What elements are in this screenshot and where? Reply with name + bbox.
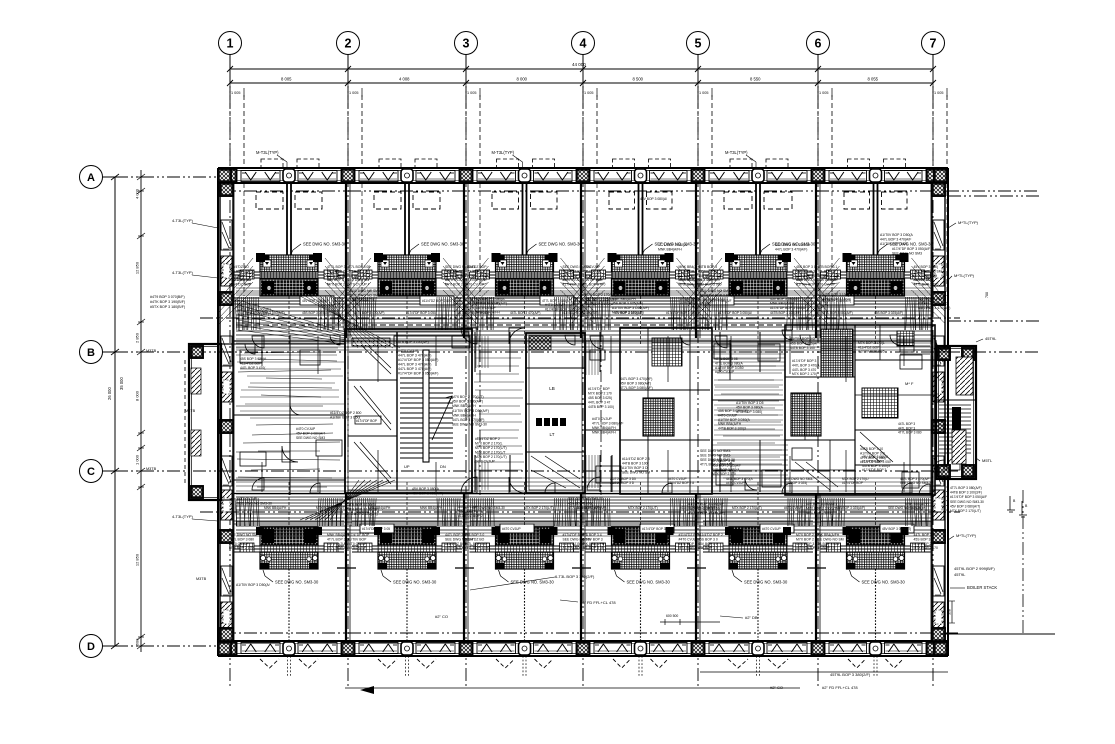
- svg-text:M7X BOP 2 170(L/T): M7X BOP 2 170(L/T): [628, 506, 658, 510]
- svg-text:#17/4"DF BOP 3 050(: #17/4"DF BOP 3 050(: [406, 311, 438, 315]
- svg-text:45V BOP 3 080(A: 45V BOP 3 080(A: [412, 487, 440, 491]
- svg-text:A1/T0V BOP 3 D5: A1/T0V BOP 3 D5: [880, 242, 908, 246]
- svg-text:447L BOP 3 470(A/F): 447L BOP 3 470(A/F): [398, 354, 431, 358]
- svg-text:MNK BB4(A/FH: MNK BB4(A/FH: [452, 404, 476, 408]
- svg-text:44TB BOP 3 100(: 44TB BOP 3 100(: [622, 462, 650, 466]
- svg-text:4T7L BOP 3 080: 4T7L BOP 3 080: [898, 431, 922, 435]
- svg-text:#4T0 CVJUP: #4T0 CVJUP: [347, 546, 368, 550]
- svg-text:4: 4: [580, 37, 587, 51]
- svg-text:SEE DWG NO SM3-30: SEE DWG NO SM3-30: [775, 243, 810, 247]
- svg-text:A1/T0V BOP 3 D50(A/F): A1/T0V BOP 3 D50(A/F): [452, 409, 489, 413]
- svg-text:2 850: 2 850: [135, 332, 140, 343]
- svg-text:44TB BOP 3 100(: 44TB BOP 3 100(: [588, 405, 615, 409]
- svg-text:447L BOP 3 470(A/F): 447L BOP 3 470(A/F): [452, 418, 484, 422]
- svg-text:MNK BB4(A/FH: MNK BB4(A/FH: [592, 431, 616, 435]
- svg-text:45S BOP 3 025(A/F): 45S BOP 3 025(A/F): [874, 311, 903, 315]
- svg-text:SEE DWG NO SM: SEE DWG NO SM: [229, 533, 257, 537]
- svg-text:UP: UP: [404, 464, 410, 469]
- svg-text:45S BOP 3 0: 45S BOP 3 0: [816, 546, 836, 550]
- svg-text:M*TL(TYP): M*TL(TYP): [956, 533, 977, 538]
- svg-text:#17/4"DF BOP: #17/4"DF BOP: [347, 533, 370, 537]
- svg-text:447L BOP 3 4: 447L BOP 3 4: [581, 533, 602, 537]
- svg-text:#4T0 CVJUP: #4T0 CVJUP: [327, 542, 348, 546]
- svg-text:MNK BB4(A/FH: MNK BB4(A/FH: [612, 297, 636, 301]
- svg-text:447L BOP 3 470: 447L BOP 3 470: [914, 533, 939, 537]
- svg-text:8 005: 8 005: [281, 77, 292, 82]
- svg-text:6: 6: [815, 37, 822, 51]
- svg-text:M7X BOP 2 170: M7X BOP 2 170: [588, 392, 612, 396]
- svg-text:MNK BB4(A/FH: MNK BB4(A/FH: [264, 506, 287, 510]
- svg-text:M7X BOP 2 170(L/T): M7X BOP 2 170(L/T): [316, 506, 346, 510]
- svg-text:#17/4"DF BOP 3 050(A/F): #17/4"DF BOP 3 050(A/F): [398, 372, 438, 376]
- svg-text:#4T0 CVJUP: #4T0 CVJUP: [229, 542, 250, 546]
- svg-text:4T7L BOP 3 08: 4T7L BOP 3 08: [581, 546, 604, 550]
- svg-text:SEE DWG NO SM3-: SEE DWG NO SM3-: [700, 449, 731, 453]
- svg-text:#11/4"DZ BOP 2 8: #11/4"DZ BOP 2 8: [668, 481, 694, 485]
- svg-text:#17/4"DF BOP 3: #17/4"DF BOP 3: [862, 468, 887, 472]
- svg-text:45V BOP 3 080(A/T): 45V BOP 3 080(A/T): [476, 302, 507, 306]
- svg-text:SEE DWG NO SM: SEE DWG NO SM: [622, 471, 650, 475]
- svg-text:1 005: 1 005: [819, 91, 829, 95]
- svg-text:#11/4"DZ BOP 2: #11/4"DZ BOP 2: [698, 533, 723, 537]
- svg-text:M7X BOP 2 1: M7X BOP 2 1: [914, 542, 935, 546]
- svg-text:#17/4"DF BOP: #17/4"DF BOP: [842, 481, 863, 485]
- svg-text:#4T0 CVJUP: #4T0 CVJUP: [762, 527, 781, 531]
- svg-text:1: 1: [227, 37, 234, 51]
- svg-text:447L BOP 3 470(A: 447L BOP 3 470(A: [792, 363, 820, 367]
- svg-text:44TB BOP 3 100: 44TB BOP 3 100: [790, 346, 815, 350]
- svg-text:45V BOP 3 080(A: 45V BOP 3 080(A: [862, 455, 889, 459]
- svg-text:C: C: [87, 466, 95, 478]
- svg-text:MNK BB4(A/FH: MNK BB4(A/FH: [476, 311, 500, 315]
- svg-text:4T7L BOP 3 080(A/F): 4T7L BOP 3 080(A/F): [950, 486, 982, 490]
- svg-text:M*TL(TYP): M*TL(TYP): [958, 220, 979, 225]
- svg-text:45V BOP 3 0: 45V BOP 3 0: [698, 542, 718, 546]
- svg-text:45T9L BOP 3 380(2/F): 45T9L BOP 3 380(2/F): [830, 672, 871, 677]
- svg-text:447L BOP 3 470(A/F): 447L BOP 3 470(A/F): [620, 377, 652, 381]
- svg-text:447L BOP 3 470: 447L BOP 3 470: [792, 368, 816, 372]
- svg-text:#4T0 CVJUP: #4T0 CVJUP: [465, 283, 486, 287]
- svg-text:#11/4"DZ BOP 2: #11/4"DZ BOP 2: [475, 437, 500, 441]
- svg-text:SEE DWG NO SM3-30: SEE DWG NO SM3-30: [888, 506, 921, 510]
- svg-text:B: B: [87, 347, 95, 359]
- svg-text:M3TB: M3TB: [146, 349, 157, 353]
- svg-text:SEE DWG NO: SEE DWG NO: [347, 278, 369, 282]
- svg-text:#4T0 CVJUP: #4T0 CVJUP: [502, 527, 521, 531]
- svg-text:1 005: 1 005: [467, 91, 477, 95]
- svg-text:447L BOP 3 470(A/F): 447L BOP 3 470(A/F): [398, 363, 431, 367]
- svg-text:A1/T0V BOP 3 D50(A/F): A1/T0V BOP 3 D50(A/F): [250, 311, 285, 315]
- svg-text:M3TB: M3TB: [196, 577, 207, 581]
- svg-text:MNK BB4(A/FH: MNK BB4(A/FH: [368, 506, 391, 510]
- svg-text:#17/4"DF BOP 3 050(A/F: #17/4"DF BOP 3 050(A/F: [950, 495, 987, 499]
- svg-text:M7X BOP 2 1: M7X BOP 2 1: [465, 278, 486, 282]
- svg-text:600 500: 600 500: [666, 614, 678, 618]
- svg-text:44TB BOP 3: 44TB BOP 3: [698, 265, 717, 269]
- svg-text:447L BOP 3: 447L BOP 3: [679, 542, 697, 546]
- svg-text:#11/4"DZ BO: #11/4"DZ BO: [465, 537, 485, 541]
- svg-text:A1/T0V BOP 3 D50(A/: A1/T0V BOP 3 D50(A/: [236, 583, 270, 587]
- svg-text:MNK BB4(A/FH: MNK BB4(A/FH: [592, 426, 616, 430]
- svg-text:45T9L BOP 2 999(B/F): 45T9L BOP 2 999(B/F): [954, 566, 995, 571]
- svg-text:#4T0 CVJUP: #4T0 CVJUP: [475, 460, 496, 464]
- svg-text:4T7L BOP 3 080: 4T7L BOP 3 080: [229, 537, 254, 541]
- svg-text:1 005: 1 005: [584, 91, 594, 95]
- svg-text:4T7L BOP 3 08: 4T7L BOP 3 08: [347, 265, 370, 269]
- svg-text:1 000: 1 000: [135, 454, 140, 465]
- svg-text:35 000: 35 000: [119, 377, 124, 390]
- svg-text:M5TL: M5TL: [982, 458, 993, 463]
- svg-text:8 500: 8 500: [633, 77, 644, 82]
- svg-text:3: 3: [463, 37, 470, 51]
- svg-text:M7X BOP 2 1: M7X BOP 2 1: [327, 283, 348, 287]
- svg-text:44 000: 44 000: [572, 62, 586, 67]
- svg-text:4T7L BOP 3: 4T7L BOP 3: [816, 269, 835, 273]
- svg-text:SEE DWG NO. SM3-30: SEE DWG NO. SM3-30: [539, 242, 583, 247]
- svg-text:2: 2: [345, 37, 352, 51]
- svg-text:#4T0 CVJUP: #4T0 CVJUP: [237, 497, 258, 501]
- svg-text:7: 7: [930, 37, 937, 51]
- svg-text:#17/4"DF BOP 3 0: #17/4"DF BOP 3 0: [642, 527, 668, 531]
- svg-text:M7X BOP 2 170(L/T): M7X BOP 2 170(L/T): [524, 506, 554, 510]
- svg-text:SEE DWG NO SM3-30: SEE DWG NO SM3-30: [950, 500, 984, 504]
- svg-text:SEE DWG NO SM: SEE DWG NO SM: [816, 537, 844, 541]
- svg-text:447L BOP 3 47: 447L BOP 3 47: [465, 542, 488, 546]
- svg-text:DN: DN: [440, 464, 446, 469]
- svg-text:#4T0 CVJUP: #4T0 CVJUP: [715, 370, 735, 374]
- svg-text:45V BOP 3 080(: 45V BOP 3 080(: [465, 274, 491, 278]
- svg-text:45S BOP 3 025: 45S BOP 3 025: [816, 542, 840, 546]
- svg-text:4T7L BOP 3: 4T7L BOP 3: [327, 546, 346, 550]
- svg-text:#4TK BOP 3 190(B/F): #4TK BOP 3 190(B/F): [150, 300, 185, 304]
- svg-text:447L BOP 3 470(A/F): 447L BOP 3 470(A/F): [775, 248, 807, 252]
- svg-text:45S BOP 3 025(A/F): 45S BOP 3 025(A/F): [302, 311, 331, 315]
- svg-text:1 005: 1 005: [699, 91, 709, 95]
- svg-text:SEE DWG NO. SM3-30: SEE DWG NO. SM3-30: [275, 580, 319, 585]
- svg-text:5: 5: [695, 37, 702, 51]
- svg-text:#2" CO: #2" CO: [770, 685, 783, 690]
- svg-text:MNK BB4(A/FH: MNK BB4(A/FH: [816, 533, 840, 537]
- svg-text:45S BOP 3 025(A/F): 45S BOP 3 025(A/F): [718, 409, 748, 413]
- svg-text:#17/4"DF BOP 3: #17/4"DF BOP 3: [792, 359, 817, 363]
- svg-text:4-T3L(TYP): 4-T3L(TYP): [172, 218, 194, 223]
- svg-text:#2" DB: #2" DB: [745, 615, 758, 620]
- svg-text:447L BOP 3 470(A/F): 447L BOP 3 470(A/F): [510, 311, 540, 315]
- svg-text:45S BOP 3 0: 45S BOP 3 0: [914, 537, 934, 541]
- svg-text:M7X BOP 2 170(L: M7X BOP 2 170(L: [475, 442, 503, 446]
- svg-text:A1/T0V BOP 3 D: A1/T0V BOP 3 D: [622, 466, 648, 470]
- svg-text:A: A: [87, 172, 95, 184]
- svg-text:1 005: 1 005: [934, 91, 944, 95]
- svg-text:447L BOP 3 470(A/F): 447L BOP 3 470(A/F): [354, 311, 384, 315]
- svg-text:447L BOP 3 470(A/F): 447L BOP 3 470(A/F): [398, 367, 431, 371]
- svg-text:44TB BOP 3 1: 44TB BOP 3 1: [816, 265, 838, 269]
- svg-text:308: 308: [948, 609, 952, 615]
- svg-text:#2" FD FFL+CL 478: #2" FD FFL+CL 478: [822, 685, 858, 690]
- svg-text:45S BOP 3 025(A/F): 45S BOP 3 025(A/F): [612, 302, 643, 306]
- svg-text:A1/T0V BOP 3 D50: A1/T0V BOP 3 D50: [715, 366, 744, 370]
- svg-text:26 000: 26 000: [107, 387, 112, 400]
- svg-text:SEE DWG NO. SM3-30: SEE DWG NO. SM3-30: [303, 242, 347, 247]
- svg-text:#4T0 CVJUP: #4T0 CVJUP: [398, 349, 419, 353]
- svg-text:M7X BOP 2 170(: M7X BOP 2 170(: [792, 372, 818, 376]
- svg-text:#17/4"DF BOP: #17/4"DF BOP: [588, 387, 610, 391]
- svg-text:M-T3L(TYP): M-T3L(TYP): [492, 150, 515, 155]
- svg-text:#4T0 CVJUP: #4T0 CVJUP: [476, 306, 497, 310]
- svg-text:4 008: 4 008: [399, 77, 410, 82]
- svg-text:A1/T0V BOP 3: A1/T0V BOP 3: [581, 537, 603, 541]
- svg-text:M7X BOP 2 170(L/T): M7X BOP 2 170(L/T): [732, 506, 762, 510]
- svg-text:4T7L BOP 3 080(A: 4T7L BOP 3 080(A: [476, 297, 505, 301]
- svg-text:45S BOP 3 025(A/: 45S BOP 3 025(A/: [790, 341, 817, 345]
- svg-text:#17/4"DF BOP 3 050(A/F: #17/4"DF BOP 3 050(A/F: [892, 247, 930, 251]
- svg-text:4 000: 4 000: [135, 188, 140, 199]
- svg-text:#4T9 BOP 3 070(B/F): #4T9 BOP 3 070(B/F): [150, 295, 185, 299]
- svg-text:#17/4"DF BOP 3 050(A/: #17/4"DF BOP 3 050(A/: [718, 311, 752, 315]
- svg-text:45V BOP 3 080(A/T): 45V BOP 3 080(A/T): [620, 382, 651, 386]
- svg-text:M3TB: M3TB: [185, 409, 196, 413]
- svg-text:M-T3L(TYP): M-T3L(TYP): [256, 150, 279, 155]
- svg-text:M* F: M* F: [905, 381, 914, 386]
- svg-text:8 000: 8 000: [135, 390, 140, 401]
- svg-text:4T7L BOP 3 080(A/: 4T7L BOP 3 080(A/: [658, 243, 687, 247]
- svg-text:45S BOP 3 025(: 45S BOP 3 025(: [784, 481, 808, 485]
- svg-text:45S BOP 3 0: 45S BOP 3 0: [698, 537, 718, 541]
- svg-text:#5TX BOP 3 180(B/F): #5TX BOP 3 180(B/F): [150, 305, 185, 309]
- svg-text:45T9L: 45T9L: [954, 572, 966, 577]
- svg-text:45S BOP 3 025(: 45S BOP 3 025(: [588, 396, 613, 400]
- svg-text:44TB BOP 3 100(3/F): 44TB BOP 3 100(3/F): [950, 491, 982, 495]
- svg-text:SEE DWG NO. SM3-30: SEE DWG NO. SM3-30: [744, 580, 788, 585]
- svg-text:447L BOP 3 470(A/F): 447L BOP 3 470(A/F): [918, 306, 950, 310]
- svg-text:M3TB: M3TB: [146, 467, 157, 471]
- svg-text:8 000: 8 000: [517, 77, 528, 82]
- svg-text:SEE DWG NO. SM3-30: SEE DWG NO. SM3-30: [421, 242, 465, 247]
- svg-text:4T7L BOP 3 080(A/F): 4T7L BOP 3 080(A/F): [620, 386, 653, 390]
- svg-text:1 005: 1 005: [231, 91, 241, 95]
- svg-text:#17/4"DF BOP: #17/4"DF BOP: [356, 419, 377, 423]
- svg-text:M7X BOP 2 170(L/T): M7X BOP 2 170(L/T): [950, 509, 981, 513]
- svg-text:LB: LB: [549, 386, 555, 391]
- svg-text:#11/4"DZ BOP: #11/4"DZ BOP: [465, 265, 488, 269]
- svg-text:#4T0 CVJUP: #4T0 CVJUP: [296, 427, 316, 431]
- svg-text:12 850: 12 850: [135, 553, 140, 566]
- svg-text:A1/T0V BOP 3 D50(A: A1/T0V BOP 3 D50(A: [880, 233, 913, 237]
- svg-text:A1/T0V BOP 3 D50(A/F): A1/T0V BOP 3 D50(A/F): [612, 306, 649, 310]
- svg-text:45V BOP 3 080(A/T): 45V BOP 3 080(A/T): [452, 400, 483, 404]
- svg-text:SEE DWG NO SM3: SEE DWG NO SM3: [296, 436, 325, 440]
- svg-text:#4T0 CVJUP: #4T0 CVJUP: [784, 506, 803, 510]
- svg-text:SEE DWG NO. SM3-30: SEE DWG NO. SM3-30: [862, 580, 906, 585]
- svg-text:#11/4"DZ BOP 2 800: #11/4"DZ BOP 2 800: [330, 411, 362, 415]
- svg-text:#17/4"DF BOP: #17/4"DF BOP: [862, 459, 884, 463]
- svg-text:45S BOP 3 0: 45S BOP 3 0: [465, 533, 485, 537]
- svg-text:#11/4"DZ BO: #11/4"DZ BO: [229, 265, 249, 269]
- svg-text:45V BOP 3 0: 45V BOP 3 0: [698, 546, 718, 550]
- svg-text:45T9L: 45T9L: [985, 336, 997, 341]
- svg-text:788: 788: [985, 292, 989, 298]
- svg-text:BOILER STACK: BOILER STACK: [967, 585, 997, 590]
- svg-text:4T7L BOP 3 080(A/F: 4T7L BOP 3 080(A/F: [592, 422, 623, 426]
- svg-text:8 550: 8 550: [750, 77, 761, 82]
- svg-text:LT: LT: [550, 432, 555, 437]
- svg-text:#4T0 CVJUP: #4T0 CVJUP: [581, 265, 602, 269]
- svg-text:SEE DWG NO SM3-30: SEE DWG NO SM3-30: [452, 423, 487, 427]
- svg-text:#17/4"DF BOP 3 050(A/F): #17/4"DF BOP 3 050(A/F): [398, 358, 438, 362]
- svg-text:4-T3L(TYP): 4-T3L(TYP): [172, 514, 194, 519]
- svg-text:45V BOP 3 080(A/: 45V BOP 3 080(A/: [640, 197, 667, 201]
- svg-text:M7X BOP 2 1: M7X BOP 2 1: [796, 537, 817, 541]
- svg-text:MNK BB4(A/FH: MNK BB4(A/FH: [452, 413, 476, 417]
- svg-text:45S BOP 3 025: 45S BOP 3 025: [698, 274, 722, 278]
- svg-text:MNK BB4(A/FH: MNK BB4(A/FH: [658, 248, 682, 252]
- svg-text:#11/4"DZ BOP 2 8: #11/4"DZ BOP 2 8: [622, 457, 650, 461]
- svg-text:M-T3L(TYP): M-T3L(TYP): [725, 150, 748, 155]
- svg-text:8 055: 8 055: [868, 77, 879, 82]
- svg-text:SEE DWG NO. SM3-30: SEE DWG NO. SM3-30: [627, 580, 671, 585]
- svg-text:MNK BB4(A/FH: MNK BB4(A/FH: [458, 510, 482, 514]
- svg-text:#2" CO: #2" CO: [435, 614, 448, 619]
- svg-text:#11/4"DZ BOP 2 800(B/T: #11/4"DZ BOP 2 800(B/T: [680, 506, 716, 510]
- svg-text:M7X BOP 2 170(: M7X BOP 2 170(: [229, 546, 255, 550]
- svg-text:#6" FD FFL+CL 478: #6" FD FFL+CL 478: [580, 600, 616, 605]
- svg-text:45S BOP 3 025(A/F): 45S BOP 3 025(A/F): [836, 506, 865, 510]
- svg-text:M*TL(TYP): M*TL(TYP): [954, 273, 975, 278]
- svg-text:#17/4"DF BOP 3 050(: #17/4"DF BOP 3 050(: [666, 311, 698, 315]
- svg-text:6-T3L BOP 3 380(2/F): 6-T3L BOP 3 380(2/F): [555, 574, 595, 579]
- svg-text:A1/T0V BOP 3 D: A1/T0V BOP 3 D: [610, 481, 635, 485]
- svg-text:M7X BOP 2 1: M7X BOP 2 1: [327, 269, 348, 273]
- svg-text:44TB BOP 3 100(3/F): 44TB BOP 3 100(3/F): [770, 311, 801, 315]
- svg-text:A1/T0V BOP 3 D50(: A1/T0V BOP 3 D50(: [330, 416, 361, 420]
- svg-text:M7X BOP 2 170: M7X BOP 2 170: [712, 472, 736, 476]
- svg-text:4T7L BOP 3 080: 4T7L BOP 3 080: [465, 546, 490, 550]
- svg-text:SEE DWG NO SM3-30: SEE DWG NO SM3-30: [237, 502, 272, 506]
- svg-text:M7X BOP 2 170(L/T): M7X BOP 2 170(L/T): [452, 395, 484, 399]
- svg-text:44TB BOP 3 10: 44TB BOP 3 10: [860, 447, 883, 451]
- svg-text:D: D: [87, 641, 95, 653]
- svg-text:M7X BOP 2 170(L/T): M7X BOP 2 170(L/T): [346, 512, 378, 516]
- svg-text:45V BOP 3 080(A/T): 45V BOP 3 080(A/T): [950, 504, 980, 508]
- svg-text:#4T0 CVJUP: #4T0 CVJUP: [581, 269, 602, 273]
- svg-text:A1/T0V BOP: A1/T0V BOP: [347, 537, 367, 541]
- svg-text:SEE DWG NO SM3-30: SEE DWG NO SM3-30: [472, 506, 505, 510]
- svg-text:A1/T0V BOP 3 D5: A1/T0V BOP 3 D5: [736, 401, 764, 405]
- svg-text:SEE DWG NO. SM3-30: SEE DWG NO. SM3-30: [393, 580, 437, 585]
- svg-text:12 850: 12 850: [135, 261, 140, 274]
- svg-text:44TB BOP 3 100(3: 44TB BOP 3 100(3: [862, 464, 890, 468]
- svg-text:#4T0 CVJUP: #4T0 CVJUP: [718, 413, 738, 417]
- svg-text:45V BOP 3 080(: 45V BOP 3 080(: [914, 265, 940, 269]
- svg-text:#4T0 CVJUP: #4T0 CVJUP: [816, 283, 837, 287]
- svg-text:#4T0 CVJUP: #4T0 CVJUP: [592, 417, 613, 421]
- svg-text:447L BOP 3 47: 447L BOP 3 47: [588, 401, 611, 405]
- svg-text:MNK BB4(A/FH: MNK BB4(A/FH: [718, 422, 742, 426]
- svg-text:#4T0 CVJUP: #4T0 CVJUP: [796, 546, 817, 550]
- svg-text:#4T0 CVJUP: #4T0 CVJUP: [445, 546, 466, 550]
- svg-text:4-T3L(TYP): 4-T3L(TYP): [172, 270, 194, 275]
- svg-text:#4T0 CVJUP: #4T0 CVJUP: [726, 481, 745, 485]
- svg-text:4T7L BOP 3 080(A/F): 4T7L BOP 3 080(A/F): [822, 311, 853, 315]
- svg-text:#4T0 CVJUP: #4T0 CVJUP: [347, 542, 368, 546]
- svg-text:MNK BB4(A/FH: MNK BB4(A/FH: [770, 302, 794, 306]
- svg-text:1 005: 1 005: [349, 91, 359, 95]
- svg-text:45V BOP 3 080(A/T): 45V BOP 3 080(A/T): [614, 311, 643, 315]
- svg-text:M7X BOP 2 170: M7X BOP 2 170: [914, 546, 939, 550]
- svg-text:600: 600: [135, 638, 140, 645]
- svg-text:MNK BB4(A/FH: MNK BB4(A/FH: [581, 542, 605, 546]
- svg-text:#4T0 CVJUP: #4T0 CVJUP: [347, 283, 368, 287]
- svg-text:447L BOP 3 470(A/F: 447L BOP 3 470(A/F: [880, 238, 911, 242]
- svg-text:MNK BB4(A/FH: MNK BB4(A/FH: [420, 506, 443, 510]
